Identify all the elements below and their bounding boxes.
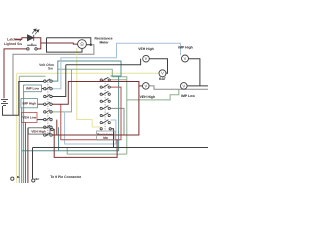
svg-text:B-: B- (17, 175, 20, 179)
svg-text:B+: B+ (36, 177, 40, 181)
svg-text:IMP High: IMP High (23, 101, 37, 105)
svg-text:Sw: Sw (48, 66, 53, 70)
svg-text:V: V (182, 83, 185, 88)
svg-text:V: V (161, 71, 164, 76)
svg-text:VEH High: VEH High (138, 47, 153, 51)
svg-text:V: V (144, 83, 147, 88)
svg-text:Lighted Sw: Lighted Sw (4, 42, 22, 46)
svg-text:IMP Low: IMP Low (181, 94, 195, 98)
svg-text:Mtr: Mtr (103, 136, 109, 140)
svg-text:IMP Low: IMP Low (26, 87, 39, 91)
svg-text:VEH Low: VEH Low (22, 116, 36, 120)
svg-text:To 9 Pin Connector: To 9 Pin Connector (50, 175, 82, 179)
svg-text:VEH High: VEH High (31, 130, 46, 134)
svg-text:VEH High: VEH High (140, 95, 155, 99)
svg-text:V: V (184, 56, 187, 61)
svg-text:V: V (145, 56, 148, 61)
svg-text:BAT: BAT (159, 77, 167, 81)
svg-text:Meter: Meter (99, 40, 109, 44)
svg-text:IMP High: IMP High (178, 45, 192, 49)
